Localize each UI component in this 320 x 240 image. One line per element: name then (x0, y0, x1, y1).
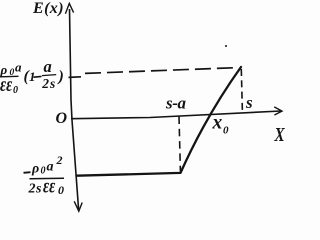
svg-text:s: s (245, 93, 253, 112)
svg-text:0: 0 (13, 85, 18, 96)
svg-text:2s: 2s (28, 182, 43, 197)
svg-text:O: O (56, 110, 68, 127)
svg-text:a: a (44, 57, 52, 76)
svg-text:a: a (47, 160, 54, 175)
svg-text:2s: 2s (41, 76, 56, 91)
svg-text:εε: εε (43, 174, 56, 197)
svg-text:εε: εε (0, 73, 13, 96)
svg-text:): ) (57, 68, 64, 85)
svg-text:x: x (212, 113, 223, 134)
svg-text:s-a: s-a (165, 94, 186, 113)
svg-text:2: 2 (56, 153, 63, 167)
svg-text:E(x): E(x) (32, 0, 64, 17)
svg-text:X: X (274, 123, 285, 145)
svg-text:0: 0 (58, 183, 64, 197)
svg-text:ρ: ρ (31, 162, 39, 177)
svg-text:a: a (15, 60, 22, 75)
svg-text:0: 0 (223, 125, 229, 137)
